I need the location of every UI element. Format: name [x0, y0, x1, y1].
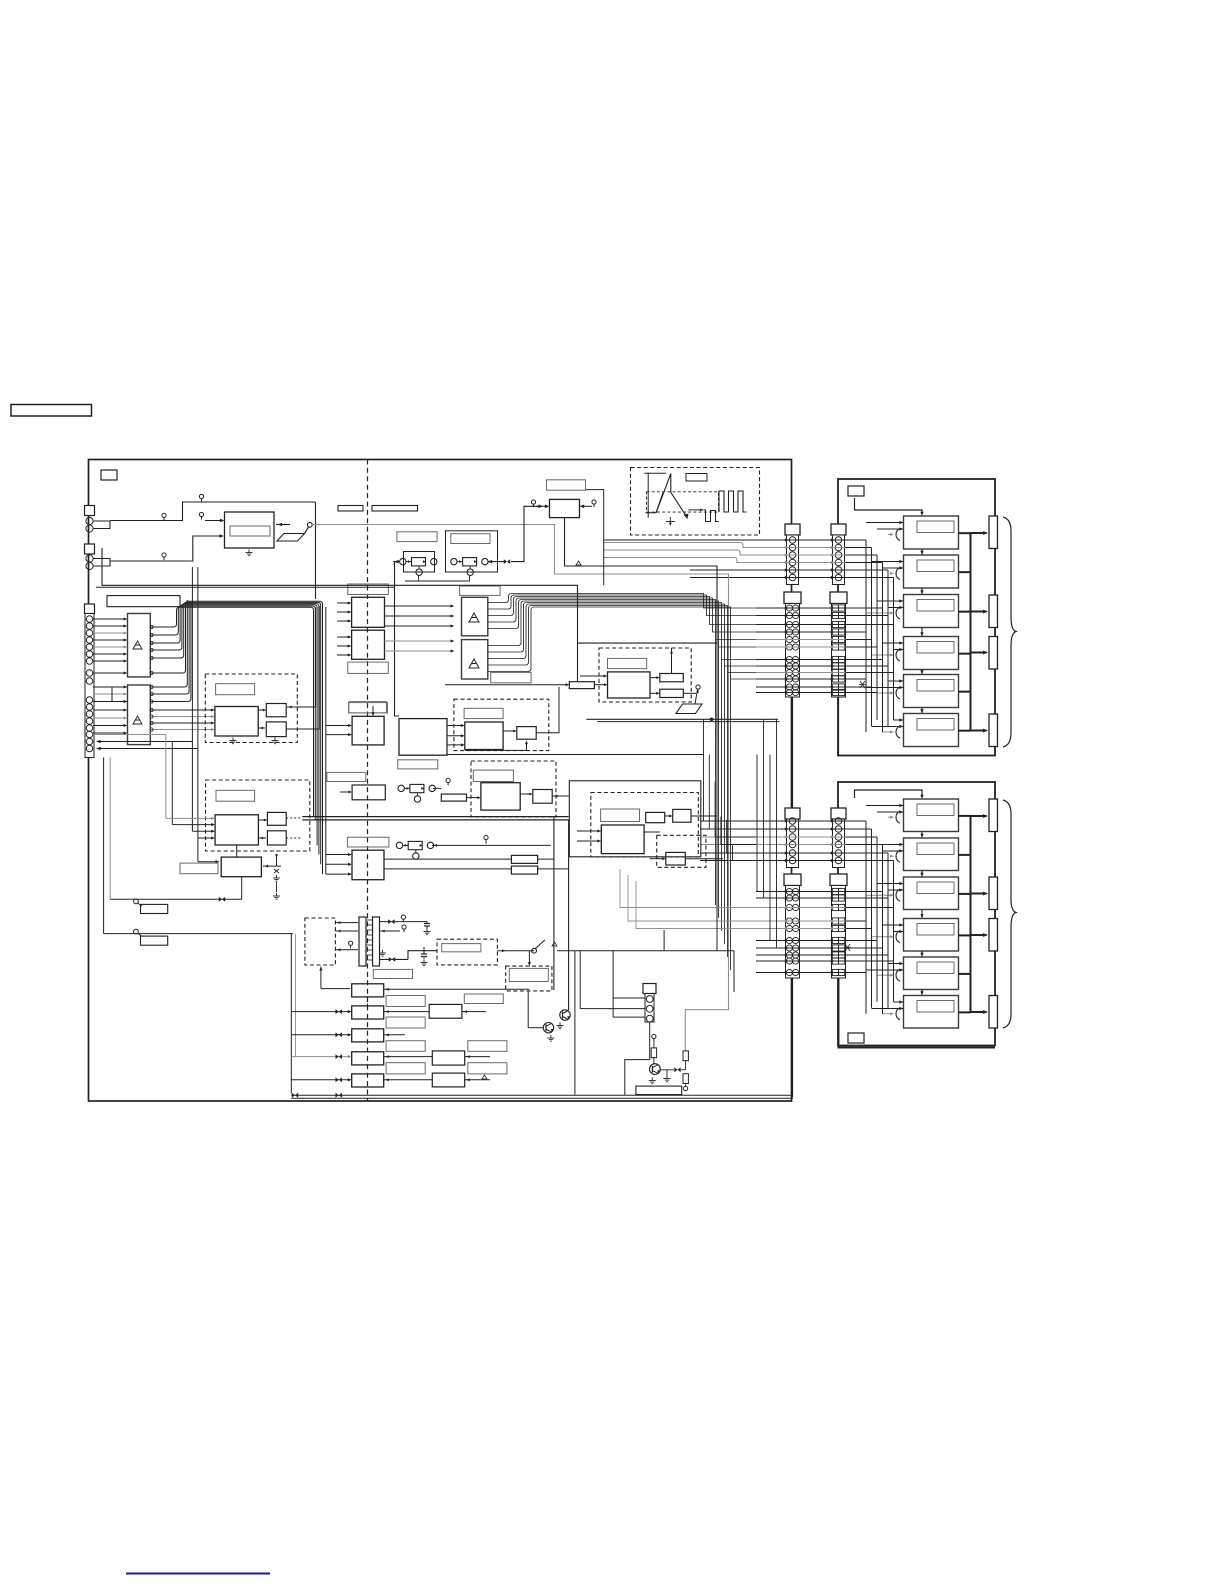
upper output arrow [971, 652, 987, 654]
cascade bottom rail 1 [291, 1094, 793, 1096]
scan driver IC U4 [462, 640, 488, 679]
P1 input wires [326, 725, 351, 727]
buffer input arrows [337, 602, 350, 604]
connector CN-A4 pin pair 10 [786, 969, 792, 975]
wire regulator output down [565, 518, 718, 738]
wire connector B4 drop [839, 978, 996, 1048]
connector CN-A2 pin pair 4 [786, 629, 792, 635]
connector CN-B4 pin pair 4 [832, 918, 838, 924]
wire rail y754 [447, 754, 704, 756]
lower drive block 3 input arrows [899, 882, 903, 885]
lower block 2 output wire [959, 854, 971, 856]
ground G5 [666, 1076, 668, 1079]
logic box L2 [352, 850, 384, 880]
resistor R2 [683, 1051, 688, 1061]
pulse gen label [216, 684, 255, 695]
port P1 [162, 513, 166, 517]
pulse gen dashed box D1 [205, 674, 297, 743]
sel box S3 [352, 785, 385, 800]
left connector CN3 pin 15 [86, 731, 93, 738]
DC-DC converter U1 [225, 512, 275, 548]
sustain out block [533, 790, 552, 804]
mixer M1 bottom node [416, 569, 422, 575]
att box [441, 794, 466, 801]
recovery sub block [666, 852, 686, 865]
upper bundle feeds from connector [846, 539, 867, 541]
driver A input wires [93, 618, 126, 620]
recovery label [601, 809, 640, 822]
upper panel brace [1003, 517, 1016, 747]
connector CN-B3 pin 2 [835, 826, 842, 833]
upper output arrow [971, 532, 987, 534]
double rail drops [553, 817, 555, 990]
mixer M4 right summing node [427, 842, 433, 848]
connector CN-A4 pin pair 6 [786, 937, 792, 943]
cascade driver block 1 [352, 984, 384, 997]
upper drive block 6 [904, 714, 959, 747]
cascade input rows [291, 1011, 350, 1013]
connector CN-B2 pin pair 1 [832, 605, 838, 611]
connector CN-B4 pin pair 10 [832, 969, 838, 975]
sustain IC [481, 783, 520, 810]
asterisk mark 1 [844, 944, 851, 951]
wire connector A4 drop to bottom rail [792, 978, 794, 1097]
pulse gen out2 wire [286, 606, 319, 729]
upper bundle vertical 2 [871, 548, 873, 726]
connector CN-B2 pin pair 2 [832, 612, 838, 618]
upper block 4 input wires [883, 642, 904, 644]
waveform sustain pulses large [719, 491, 747, 512]
rail y585 [102, 548, 578, 682]
harness wires top group (large) [756, 607, 862, 609]
SR1 output wires [447, 725, 463, 727]
mixer M1 enclosure [404, 552, 435, 573]
L2 inputs [326, 854, 351, 856]
connector CN-A2 pin pair 3 [786, 621, 792, 627]
connector CN-B2 shell [830, 592, 847, 604]
CN5 feed verticals [579, 951, 581, 1009]
upper drive block 5 [904, 675, 959, 708]
waveform ramp trace [656, 474, 686, 517]
upper cascade arrow 2 [921, 588, 923, 595]
recovery dashed box D6 [591, 793, 699, 858]
cascade feed from transformer box [321, 988, 350, 990]
connector CN-B4 shell [830, 874, 847, 886]
D3 input wire [580, 675, 606, 677]
upper buffer board designator box [848, 486, 864, 496]
connector CN-B2 pin pair 4 [832, 629, 838, 635]
upper bundle vertical 6 [893, 578, 895, 720]
transistor Q3 [650, 1064, 661, 1075]
connector CN-A2 pin pair 12 [786, 689, 792, 695]
D8 drop wire [527, 991, 529, 1021]
main board designator box [101, 470, 117, 480]
pulse gen links [258, 709, 265, 711]
pulse gen IC [215, 707, 258, 737]
lower block 6 output wire [959, 1011, 971, 1013]
connector CN-A1 pin 6 [789, 574, 796, 581]
mixer M1 output arrow [393, 561, 400, 563]
lower drive block 4 [904, 919, 959, 952]
connector CN-A2 pin pair 5 [786, 636, 792, 642]
X drop wire [241, 877, 243, 899]
transistor Q1 [543, 1022, 553, 1032]
upper drive block 2 [904, 555, 959, 588]
lower block 5 output wire [959, 973, 971, 975]
wire connector A2 drop [792, 697, 794, 808]
transformer T1 [359, 917, 366, 966]
connector CN-B4 pin pair 1 [832, 888, 838, 894]
lower cascade arrow 2 [921, 871, 923, 878]
cascade label 3 [386, 1041, 425, 1052]
wire mixer M1 drop [395, 562, 400, 716]
pulse gen grounds [232, 738, 234, 741]
wire converter feed down [315, 502, 317, 599]
left connector CN3 pin 12 [86, 711, 93, 718]
pulse gen2 IC [215, 815, 258, 845]
left connector CN3 pin 14 [86, 725, 93, 732]
harness wires top group (small) [604, 539, 861, 541]
connector CN-A2 pin pair 2 [786, 612, 792, 618]
bottom label box [636, 1086, 682, 1095]
mixer M4 bottom node [413, 853, 419, 859]
regulator side drop [586, 490, 604, 586]
lower block 3 output wire [959, 893, 971, 895]
rail y719 [586, 718, 778, 720]
logic box P1 label [349, 703, 388, 713]
tag triangle [576, 561, 581, 565]
connector CN-A4 shell [784, 874, 801, 886]
lower bundle vertical 3 [876, 837, 878, 1002]
footer blue rule [126, 1573, 270, 1575]
left drop wires [103, 758, 105, 934]
capacitor C2 [424, 921, 430, 923]
pulse gen2 out1 [267, 812, 286, 825]
lower drive block 3 [904, 877, 959, 910]
mixer M3 bottom node [414, 796, 420, 802]
upper electrode bar 2 [989, 595, 998, 628]
rail y721 [597, 721, 780, 723]
driver D8 label [509, 968, 548, 981]
lower block 1 output wire [959, 815, 971, 817]
ramp port S2 [696, 685, 700, 689]
feedback verticals [191, 567, 193, 831]
upper drive block 1 input arrows [899, 521, 903, 524]
lower drive block 4 input arrows [899, 923, 903, 926]
bar label 1 [338, 506, 363, 512]
upper stack top feed wire [855, 498, 923, 514]
mixer M3 feed [433, 787, 441, 789]
CN3 aux feed wires [93, 734, 166, 736]
valve V5 [674, 1067, 677, 1072]
connector CN-A2 pin pair 11 [786, 684, 792, 690]
connector CN-A4 pin pair 1 [786, 888, 792, 894]
buffer IC B1 [352, 597, 385, 627]
scan bus verticals drop to connector rows [700, 594, 756, 609]
D2 to X link [236, 845, 238, 857]
driver B lower outputs to pulse gen [150, 709, 213, 711]
lower drive block 1 [904, 799, 959, 832]
connector CN-A1 pin 3 [789, 552, 796, 559]
resistor R3 [683, 1074, 688, 1084]
left connector CN3 pin 7 [86, 658, 93, 665]
mixer M1 left summing node [400, 558, 406, 564]
cascade label 2 [386, 1017, 425, 1028]
lower buffer board outline [838, 782, 995, 1046]
transistor Q2 [560, 1010, 570, 1020]
connector CN-B4 pin pair 6 [832, 937, 838, 943]
upper block 5 output wire [959, 691, 971, 693]
upper drive block 6 input arrows [899, 718, 903, 721]
cascade big label 1 [464, 994, 503, 1004]
snubber out wire [497, 950, 534, 952]
ramp out2 wire [683, 692, 696, 694]
capacitor C1 [423, 947, 425, 954]
cascade row4 link [384, 1056, 433, 1058]
upper drive block 3 input arrows [899, 599, 903, 602]
scan driver label bottom [491, 672, 531, 682]
connector CN-A3 shell [785, 808, 800, 819]
ramp gen IC [608, 672, 651, 698]
connector CN-B1 pin 5 [835, 567, 842, 574]
connector CN-A2 pin pair 1 [786, 605, 792, 611]
upper block 5 input wires [888, 680, 904, 682]
pulse gen out1 wire [287, 706, 316, 708]
cascade mid box 5 [432, 1073, 464, 1087]
driver B upper outputs join bus [150, 600, 187, 687]
buffer label lower [348, 662, 389, 673]
lower cascade arrow 4 [921, 951, 923, 957]
buffer output arrows [385, 605, 453, 607]
Q3 base wire [625, 1060, 649, 1095]
port P2 [199, 494, 203, 498]
cascade row2 link [384, 1011, 430, 1013]
connector CN-A4 pin pair 3 [786, 904, 792, 910]
left connector CN3 pin 16 [86, 738, 93, 745]
port P6 [592, 500, 596, 504]
left connector CN3 pin 17 [86, 745, 93, 752]
oscillator out block [517, 727, 536, 740]
regulator input arrow [536, 505, 548, 507]
upper block 4 output wire [959, 653, 971, 655]
waveform box dashed [631, 468, 760, 536]
connector CN-B1 pin 1 [835, 537, 842, 544]
cascade driver block 2 [352, 1006, 384, 1019]
driver B aux input [104, 687, 126, 702]
flag F1 [134, 899, 139, 904]
snubber dashed box [437, 939, 497, 965]
lower block 5 input wires [888, 963, 904, 965]
shift register SR1 [399, 719, 447, 756]
delay box [569, 682, 594, 689]
flag F2 [134, 929, 139, 934]
rail y586-b [96, 586, 395, 588]
port P5 [531, 500, 535, 504]
connector CN-B2 pin pair 3 [832, 621, 838, 627]
connector CN-A3 pin 5 [789, 850, 796, 857]
pulse gen2 label [216, 790, 255, 801]
wire CN1 to converter [93, 521, 110, 529]
lower block 1 input wires [866, 805, 904, 807]
cascade mid box 4 [432, 1051, 464, 1065]
feedback wires to CN3 [98, 741, 193, 743]
lower drive block 6 input arrows [899, 1000, 903, 1003]
connector CN-B2 pin pair 5 [832, 636, 838, 642]
wire CN2 to converter [93, 559, 110, 567]
upper electrode bar 4 [989, 714, 998, 747]
upper bundle vertical 3 [876, 555, 878, 720]
upper drive block 4 [904, 637, 959, 670]
connector CN-A1 pin 1 [789, 537, 796, 544]
connector CN-A1 pin 4 [789, 559, 796, 566]
upper cascade arrow 3 [921, 628, 923, 637]
sustain link [520, 793, 531, 795]
transformer input wires [335, 922, 358, 924]
left connector CN3 pin 10 [86, 697, 93, 704]
buffer label upper [348, 584, 389, 595]
left connector CN3 pin 6 [86, 651, 93, 658]
lower output arrow [971, 893, 987, 895]
left connector CN3 pin 1 [86, 616, 93, 623]
upper block 3 input wires [877, 600, 904, 602]
mixer M2 enclosure [446, 531, 498, 572]
connector CN-A2 pin pair 10 [786, 676, 792, 682]
connector CN-B2 pin pair 11 [832, 684, 838, 690]
lower electrode bar 2 [989, 877, 998, 910]
ramp gen out2 [660, 689, 684, 697]
left connector CN3 pin 8 [86, 670, 93, 677]
connector CN-B1 pin 2 [835, 544, 842, 551]
lower buffer board designator box [848, 1033, 864, 1043]
buffer label lower2 [349, 702, 387, 713]
connector CN-A4 pin pair 9 [786, 958, 792, 964]
upper bundle vertical 1 [865, 540, 867, 732]
oscillator link [503, 730, 515, 732]
regulator right arrow [581, 505, 592, 507]
main board SC outline [89, 460, 792, 1102]
long label box left [107, 596, 180, 607]
L2 out wires [538, 858, 554, 860]
left connector CN3 pin 13 [86, 718, 93, 725]
scan driver outputs to bus [488, 594, 700, 603]
pulse gen2 input wires [166, 817, 214, 819]
connector CN-A4 pin pair 8 [786, 952, 792, 958]
port P11 [684, 1086, 688, 1090]
title label box [11, 405, 92, 417]
sustain input [467, 797, 480, 799]
regulator U2 [550, 499, 580, 517]
upper cascade arrow 1 [921, 549, 923, 555]
upper output arrow [971, 611, 987, 613]
mixer row2 label left [327, 772, 366, 781]
recovery inner dashed box D7 [657, 835, 706, 867]
lower block 3 input wires [877, 883, 904, 885]
cascade label 1 [386, 996, 425, 1007]
connector CN-B1 pin 4 [835, 559, 842, 566]
upper block 6 input wires [894, 719, 904, 721]
connector CN-B3 pin 5 [835, 850, 842, 857]
scan out bus (driver A to buffers) [150, 625, 153, 628]
lower electrode bar 1 [989, 799, 998, 832]
recovery sub link [650, 858, 664, 860]
transformer out low [380, 958, 409, 960]
relay switch S1 [307, 522, 312, 527]
lower drive block 2 input arrows [899, 843, 903, 846]
lower bundle vertical 1 [865, 821, 867, 1014]
upper drive block 3 [904, 595, 959, 628]
upper block 2 output wire [959, 571, 971, 573]
logic box P1 [352, 716, 384, 745]
lower drive block 5 input arrows [899, 962, 903, 965]
connector CN-A2 pin pair 8 [786, 663, 792, 669]
lower bundle feeds from connector [846, 820, 867, 822]
left connector CN3 pin 9 [86, 678, 93, 685]
connector CN-B4 pin pair 7 [832, 945, 838, 951]
lower cascade arrow 5 [921, 990, 923, 996]
scan driver IC B [128, 685, 151, 745]
cascade box1 right feed [384, 988, 530, 990]
converter output arrow [276, 524, 290, 526]
mixer M3 series element [410, 784, 424, 792]
lower drive block 1 input arrows [899, 804, 903, 807]
upper electrode bar 3 [989, 637, 998, 670]
lower drive block 5 [904, 957, 959, 990]
mixer M3 right summing node [429, 785, 435, 791]
port P4 [162, 553, 166, 557]
buffer IC B2 [352, 630, 385, 659]
left connector CN3 shell [85, 604, 95, 614]
mixer M2 series element [463, 558, 477, 566]
mixer M3 left summing node [398, 785, 404, 791]
ground converter [248, 550, 250, 553]
left connector CN3 pin 3 [86, 630, 93, 637]
connector CN-A4 pin pair 2 [786, 895, 792, 901]
connector CN-B4 pin pair 8 [832, 952, 838, 958]
upper electrode bar 1 [989, 516, 998, 549]
waveform label [686, 474, 707, 482]
lower block 4 output wire [959, 934, 971, 936]
upper drive block 1 [904, 516, 959, 549]
cascade row3 stub [384, 1034, 405, 1036]
upper drive block 2 input arrows [899, 560, 903, 563]
snubber label [442, 944, 481, 952]
mixer M2 label [451, 534, 490, 544]
lower bundle vertical 5 [887, 853, 889, 1008]
connector CN-A3 pin 1 [789, 818, 796, 825]
scan driver IC A [128, 614, 151, 677]
pulse gen out1 [266, 704, 286, 717]
asterisk mark 2 [859, 681, 866, 688]
cascade bottom rail 2 [291, 1097, 793, 1099]
transformer T1 dashed box [305, 918, 336, 965]
lower stack top feed wire [855, 790, 923, 798]
transformer out top [380, 921, 428, 923]
left connector CN3 pin 4 [86, 637, 93, 644]
driver box X [221, 857, 261, 877]
lower electrode bar 3 [989, 919, 998, 952]
connector CN-B4 pin pair 2 [832, 895, 838, 901]
driver B input wires [93, 686, 126, 688]
lower output arrow [971, 1011, 987, 1013]
left connector CN3 pin 5 [86, 644, 93, 651]
connector CN-B2 pin pair 10 [832, 676, 838, 682]
recovery out wires [691, 815, 717, 817]
connector CN-B1 pin 6 [835, 574, 842, 581]
connector CN-A1 pin 5 [789, 567, 796, 574]
valve V1 [504, 559, 507, 564]
label box under transformer [373, 969, 412, 978]
upper cascade arrow 5 [921, 708, 923, 714]
